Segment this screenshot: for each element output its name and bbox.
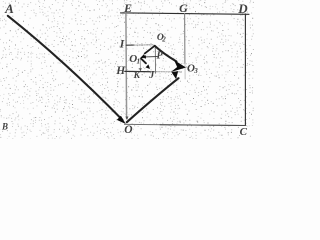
svg-text:2: 2 — [161, 36, 166, 44]
svg-text:D: D — [237, 1, 248, 16]
svg-text:A: A — [4, 1, 14, 16]
svg-text:B: B — [1, 121, 8, 131]
svg-text:1: 1 — [137, 58, 141, 66]
svg-text:O: O — [124, 124, 132, 136]
svg-text:K: K — [133, 71, 141, 81]
svg-text:H: H — [115, 65, 126, 77]
svg-text:G: G — [179, 1, 188, 15]
svg-text:I: I — [119, 39, 125, 51]
svg-text:E: E — [123, 1, 132, 15]
svg-text:J: J — [148, 70, 155, 81]
svg-text:P: P — [157, 51, 164, 62]
svg-text:3: 3 — [193, 67, 198, 75]
svg-text:C: C — [240, 126, 248, 138]
